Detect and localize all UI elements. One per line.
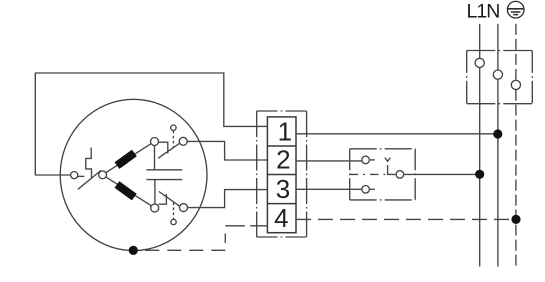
- earth symbol (PE): [507, 1, 524, 18]
- wire (node to aux winding to bottom contact): [106, 177, 152, 206]
- contact terminal top-left: [151, 138, 159, 146]
- supply connector boundary (chain line): [467, 51, 533, 104]
- wire (switch S3 to L1 rail): [404, 173, 480, 175]
- selector switch S3 contact right: [396, 171, 404, 179]
- selector switch S3 stub bottom: [370, 188, 375, 190]
- rail N: [497, 24, 499, 267]
- wire (terminal 2 to switch S3): [296, 160, 362, 162]
- wire (big loop: thermal contact to terminal 1 left side): [35, 73, 267, 175]
- junction dot (motor frame / PE): [129, 246, 138, 255]
- connector pin PE: [511, 80, 520, 89]
- motor M1 (single-phase motor outline): [60, 99, 207, 250]
- capacitor C1 plate top: [146, 169, 182, 171]
- wire (bottom contact to terminal 3): [188, 190, 268, 208]
- contact terminal bottom-right: [180, 204, 188, 212]
- thermal protector F1 bimetal element: [86, 148, 92, 179]
- selector switch S3 stub top: [370, 159, 375, 161]
- selector switch S3 blade: [388, 165, 396, 174]
- centrifugal switch S2 wire L: [158, 194, 166, 204]
- thermal protector F1 contact stub: [78, 175, 85, 177]
- connector pin L1: [475, 58, 484, 67]
- centrifugal switch S2 actuator knob: [171, 219, 176, 224]
- wire (terminal 1 to N rail): [296, 133, 498, 135]
- selector switch S3 actuator arrow: [385, 158, 391, 162]
- contact terminal top-right: [179, 137, 187, 145]
- junction dot (terminal4/PE): [511, 215, 520, 224]
- thermal protector F1 switch blade: [78, 171, 101, 190]
- selector switch S3 boundary (chain line): [350, 149, 416, 200]
- svg-text:1: 1: [278, 116, 292, 146]
- capacitor C1 lead top: [154, 146, 156, 170]
- centrifugal switch S1 blade: [158, 143, 179, 158]
- capacitor C1 plate bottom: [146, 179, 182, 181]
- svg-text:L1N: L1N: [467, 0, 500, 22]
- terminal block X1 cells: [267, 117, 296, 233]
- svg-text:2: 2: [276, 145, 290, 175]
- centrifugal switch S2 actuator link (dashed): [173, 203, 175, 220]
- rail L1: [479, 24, 481, 267]
- wire PE (terminal 4 to PE rail, dashed): [296, 218, 516, 220]
- selector switch S3 contact bottom-left: [362, 186, 370, 194]
- junction dot (terminal1/N): [493, 129, 502, 138]
- junction dot (switch/L1): [475, 170, 484, 179]
- node star-point (winding common): [99, 171, 107, 179]
- wire (node to main winding to top contact): [106, 144, 151, 173]
- selector switch S3 linkage (chain line): [350, 173, 388, 175]
- capacitor C1 lead bottom: [154, 180, 156, 204]
- connector pin N: [493, 70, 502, 79]
- winding L1 (main): [115, 150, 137, 169]
- svg-text:4: 4: [274, 203, 288, 233]
- winding L2 (auxiliary): [114, 181, 136, 200]
- centrifugal switch S2 blade: [159, 192, 180, 207]
- rail PE (dashed): [515, 24, 517, 267]
- contact terminal bottom-left: [151, 204, 159, 212]
- centrifugal switch S1 actuator link (dashed): [172, 131, 174, 147]
- wire PE (motor frame to terminal 4, dashed): [138, 226, 267, 251]
- terminal block X1 boundary (chain line): [257, 111, 307, 237]
- centrifugal switch S1 wire L: [159, 142, 168, 153]
- svg-text:3: 3: [276, 174, 290, 204]
- wire (top contact to terminal 2): [187, 141, 267, 160]
- centrifugal switch S1 actuator knob: [171, 125, 176, 130]
- wire (terminal 3 to switch S3): [296, 188, 362, 190]
- thermal protector F1 contact left terminal: [71, 172, 78, 179]
- selector switch S3 contact top-left: [362, 156, 370, 164]
